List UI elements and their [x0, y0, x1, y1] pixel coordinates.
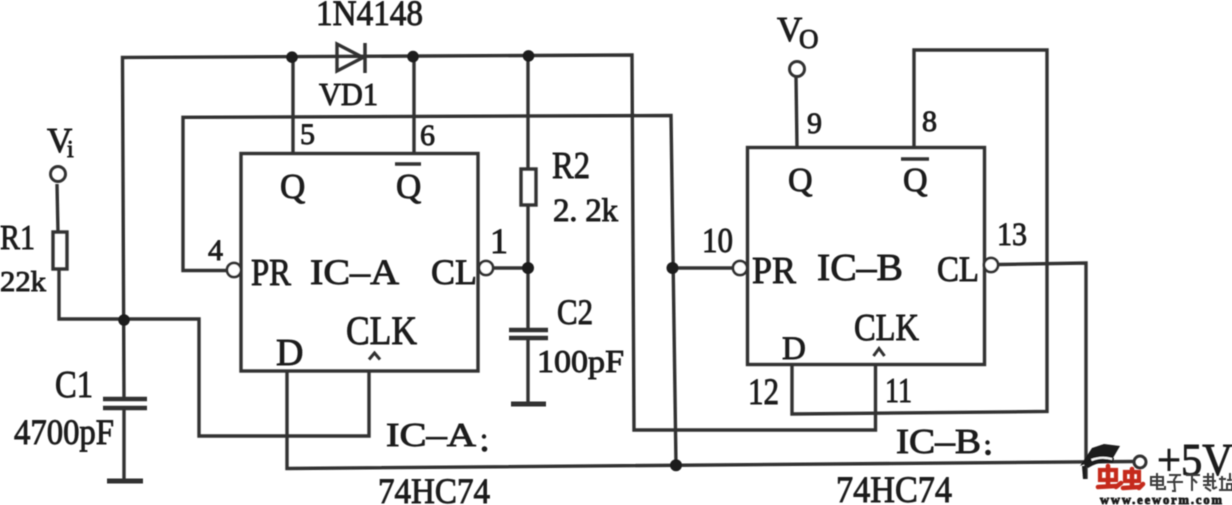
svg-text:CL: CL	[431, 252, 477, 292]
svg-text:4: 4	[208, 234, 223, 267]
svg-text:1: 1	[490, 221, 508, 261]
svg-text:1N4148: 1N4148	[316, 0, 423, 33]
svg-text:9: 9	[807, 107, 822, 140]
svg-text:12: 12	[748, 372, 779, 413]
svg-text:O: O	[799, 24, 819, 54]
svg-text:CL: CL	[937, 249, 979, 289]
svg-text:8: 8	[922, 105, 937, 138]
svg-text:Q: Q	[788, 162, 813, 199]
svg-text:IC–A: IC–A	[310, 252, 399, 292]
svg-text:www.eeworm.com: www.eeworm.com	[1100, 493, 1224, 505]
svg-text:R1: R1	[0, 218, 35, 257]
svg-text:IC–B: IC–B	[817, 247, 903, 289]
svg-text:IC–A: IC–A	[386, 417, 477, 454]
svg-text:74HC74: 74HC74	[836, 470, 952, 505]
svg-text:74HC74: 74HC74	[378, 471, 490, 505]
svg-text:13: 13	[997, 217, 1027, 253]
svg-text:IC–B: IC–B	[896, 422, 981, 461]
svg-text:5: 5	[300, 118, 315, 151]
svg-text:C1: C1	[55, 364, 93, 406]
svg-text:CLK: CLK	[346, 308, 417, 353]
svg-text:100pF: 100pF	[537, 343, 624, 379]
svg-text:+5V: +5V	[1157, 435, 1232, 485]
svg-text:2. 2k: 2. 2k	[553, 193, 619, 229]
svg-text:6: 6	[420, 119, 435, 152]
svg-text:R2: R2	[552, 145, 590, 187]
svg-text:PR: PR	[752, 250, 797, 292]
svg-text:4700pF: 4700pF	[14, 412, 114, 452]
svg-text:PR: PR	[251, 252, 292, 294]
svg-text:D: D	[782, 331, 806, 367]
svg-text:11: 11	[885, 371, 912, 410]
svg-text:Q: Q	[280, 167, 305, 206]
svg-text:22k: 22k	[0, 266, 47, 298]
svg-text:Q: Q	[903, 162, 928, 199]
svg-text:VD1: VD1	[319, 76, 378, 112]
svg-text:i: i	[67, 137, 74, 163]
svg-text:CLK: CLK	[854, 307, 919, 349]
svg-text:C2: C2	[557, 292, 593, 332]
svg-text:10: 10	[702, 221, 733, 260]
svg-text:Q: Q	[396, 167, 421, 206]
svg-text:D: D	[276, 332, 303, 374]
